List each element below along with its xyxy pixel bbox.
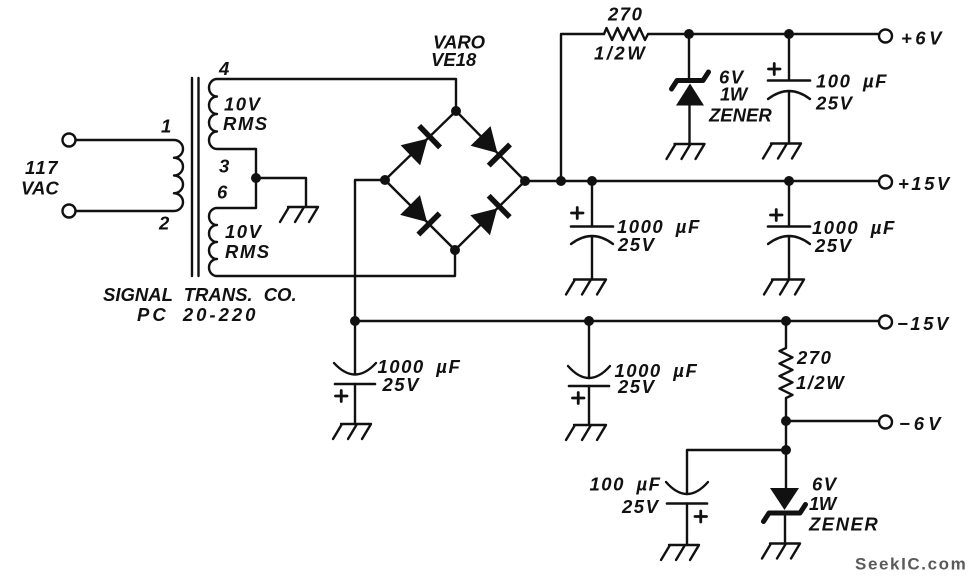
svg-text:RMS: RMS: [223, 113, 269, 134]
svg-text:6V: 6V: [812, 474, 838, 495]
svg-text:ZENER: ZENER: [708, 105, 772, 126]
svg-text:25V: 25V: [382, 374, 421, 395]
svg-text:2: 2: [158, 213, 171, 234]
svg-text:SIGNAL TRANS. CO.: SIGNAL TRANS. CO.: [103, 284, 297, 305]
svg-text:+6V: +6V: [901, 28, 945, 49]
svg-text:1W: 1W: [809, 493, 838, 514]
svg-text:1/2W: 1/2W: [594, 43, 647, 64]
svg-text:270: 270: [796, 347, 832, 368]
svg-text:10V: 10V: [224, 94, 262, 115]
svg-text:25V: 25V: [621, 496, 660, 517]
svg-text:25V: 25V: [617, 376, 656, 397]
svg-text:1/2W: 1/2W: [796, 372, 845, 393]
svg-text:PC 20-220: PC 20-220: [137, 304, 258, 325]
svg-text:1: 1: [161, 116, 173, 137]
svg-text:VAC: VAC: [21, 178, 59, 199]
svg-text:100 µF: 100 µF: [590, 474, 662, 495]
svg-text:6: 6: [217, 182, 229, 203]
svg-text:+15V: +15V: [898, 173, 952, 194]
svg-text:25V: 25V: [815, 93, 854, 114]
svg-text:100 µF: 100 µF: [816, 71, 888, 92]
svg-text:−6V: −6V: [899, 413, 944, 434]
svg-text:25V: 25V: [814, 235, 853, 256]
svg-text:−15V: −15V: [897, 313, 951, 334]
svg-text:VE18: VE18: [431, 49, 477, 70]
svg-text:RMS: RMS: [225, 241, 271, 262]
svg-text:270: 270: [607, 4, 643, 25]
svg-text:25V: 25V: [617, 234, 656, 255]
svg-text:1W: 1W: [720, 84, 749, 105]
svg-text:117: 117: [25, 157, 59, 178]
svg-text:4: 4: [218, 58, 231, 79]
svg-text:ZENER: ZENER: [808, 514, 879, 535]
svg-text:10V: 10V: [225, 221, 263, 242]
svg-text:3: 3: [219, 156, 231, 177]
svg-text:SeekIC.com: SeekIC.com: [855, 555, 967, 574]
